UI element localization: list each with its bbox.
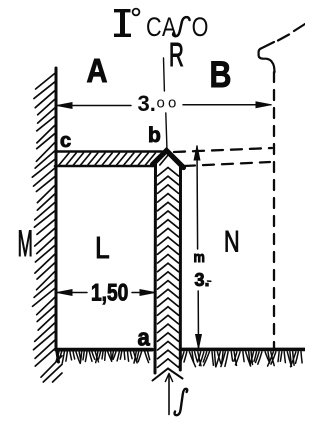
dimension 1,50 line [57,292,155,294]
svg-text:A: A [87,52,108,89]
centre line R [164,58,168,150]
svg-text:O: O [192,13,209,43]
dashed line upper [174,148,272,152]
svg-text:N: N [224,224,240,258]
svg-text:3.: 3. [195,270,210,290]
vertical wall top cap [153,151,184,168]
dimension 3.00 left arrow [57,103,72,109]
vertical dimension up arrow [194,146,200,160]
svg-text:1,50: 1,50 [91,278,128,306]
svg-text:oo: oo [157,95,180,112]
svg-text:L: L [95,231,110,265]
top-right solid hook [259,42,275,72]
grass left [56,352,150,364]
grass right [179,352,302,367]
svg-text:a: a [138,324,150,351]
title I° CASO [114,9,208,43]
svg-text:R: R [169,36,184,73]
dimension 3.00 line [57,104,271,107]
ground line right [182,348,305,352]
svg-text:m: m [194,248,205,265]
integral symbol [175,389,188,415]
floor line left [56,348,152,352]
dimension 3.00 right arrow [256,102,271,108]
dashed line lower [184,162,270,166]
svg-text:b: b [148,124,161,147]
left wall M edge [56,68,59,362]
slab c-b hatch [59,153,170,165]
dimension 1,50 left arrow [57,290,72,296]
top-right dashed contour [278,24,305,41]
dashed vertical line [273,72,275,348]
vertical dimension down arrow [196,335,202,349]
slab c-b outline [55,150,162,153]
axis arrow below wall [168,375,170,415]
svg-text:M: M [18,224,33,264]
svg-text:B: B [210,54,232,96]
dimension 1,50 right arrow [140,290,155,296]
left wall M hatch [32,72,62,382]
vertical wall right edge [179,166,182,370]
svg-text:c: c [60,130,71,152]
vertical wall chevron hatch [158,168,179,368]
vertical wall left edge [154,163,158,373]
svg-text:3.: 3. [138,91,156,116]
dimension 3.00 text [138,91,180,116]
svg-text:C: C [146,13,162,43]
vertical wall bottom tip chevron [153,369,183,381]
vertical dimension 3m line [197,146,199,348]
